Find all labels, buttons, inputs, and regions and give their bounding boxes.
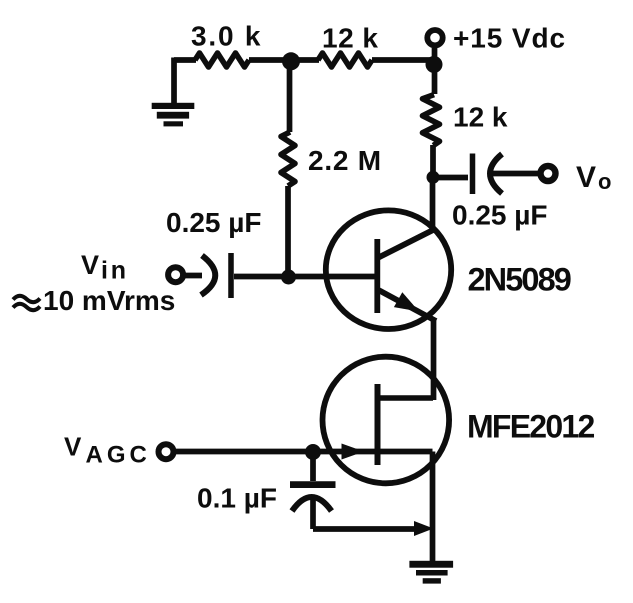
- label Vin: [81, 250, 129, 285]
- capacitor C2 0.25 uF straight plate: [470, 154, 476, 195]
- transistor Q1 base bar: [374, 239, 380, 313]
- svg-text:V: V: [576, 161, 596, 194]
- svg-text:AGC: AGC: [86, 442, 151, 469]
- svg-text:+15 Vdc: +15 Vdc: [453, 23, 566, 54]
- svg-text:2N5089: 2N5089: [468, 262, 571, 298]
- node junction A (R1/R2/2.2M): [282, 52, 300, 70]
- ground (bottom): [409, 561, 453, 584]
- wire terminal to node B: [432, 48, 438, 94]
- node junction B (supply node): [426, 56, 443, 73]
- transistor Q1 emitter lead: [378, 290, 437, 322]
- wire C3 to bottom rail: [313, 500, 424, 529]
- label Vo: [576, 161, 611, 194]
- wire node C down to collector: [430, 178, 436, 231]
- wire C1 to node D: [234, 274, 290, 280]
- label ~10 mVrms approx sign: [13, 296, 40, 310]
- label VAGC: [64, 432, 151, 469]
- wire source down to ground: [430, 452, 436, 563]
- terminal Vin: [168, 267, 183, 282]
- capacitor C3 0.1 uF straight plate: [290, 481, 336, 488]
- node junction D (base node): [281, 270, 296, 285]
- transistor Q2 MFE2012 circle: [323, 357, 450, 484]
- svg-text:12 k: 12 k: [453, 102, 508, 133]
- svg-text:2.2 M: 2.2 M: [308, 145, 382, 176]
- svg-text:0.25 µF: 0.25 µF: [452, 200, 548, 231]
- svg-text:12 k: 12 k: [322, 23, 379, 54]
- resistor R1 3.0 k: [195, 53, 249, 67]
- wire node E down to C3: [310, 452, 316, 481]
- wire C2 to Vo terminal: [490, 171, 540, 177]
- transistor Q1 collector lead: [378, 229, 437, 259]
- capacitor C1 0.25 uF curved plate: [201, 256, 215, 296]
- transistor Q1 2N5089 circle: [326, 210, 451, 329]
- wire R3 to node C: [430, 145, 436, 178]
- node junction C (collector node): [427, 171, 440, 184]
- ground (left): [152, 103, 195, 127]
- capacitor C2 curved plate: [490, 154, 502, 194]
- capacitor C3 curved plate: [292, 497, 332, 511]
- svg-text:V: V: [81, 250, 99, 280]
- resistor R2 12 k: [318, 53, 372, 67]
- wire top rail left segment: [174, 57, 196, 63]
- transistor Q2 drain lead: [378, 395, 434, 401]
- wire gate/source line: [175, 449, 433, 455]
- svg-text:V: V: [64, 432, 82, 462]
- transistor Q2 channel bar: [375, 384, 381, 465]
- wire top rail middle segment: [249, 57, 319, 63]
- resistor R4 2.2 M (vertical): [281, 132, 295, 186]
- svg-text:0.1 µF: 0.1 µF: [197, 483, 277, 514]
- wire emitter down to Q2 drain: [431, 319, 437, 400]
- wire R4 to node D: [285, 186, 291, 277]
- transistor Q2 gate arrow: [342, 444, 365, 460]
- capacitor C1 straight plate: [228, 253, 234, 298]
- node junction F (source/ground wire): [414, 521, 434, 536]
- svg-text:3.0 k: 3.0 k: [191, 21, 262, 52]
- resistor R3 12 k (vertical): [423, 95, 440, 146]
- wire top rail right segment: [372, 57, 434, 63]
- svg-text:0.25 µF: 0.25 µF: [166, 207, 262, 238]
- svg-text:MFE2012: MFE2012: [467, 409, 594, 445]
- svg-text:o: o: [598, 169, 611, 194]
- wire left drop to ground: [171, 58, 177, 105]
- wire node A down to R4: [287, 60, 293, 132]
- transistor Q1 emitter arrow: [394, 292, 419, 311]
- wire Vin terminal to C1: [184, 273, 202, 279]
- wire node C to C2: [433, 175, 468, 181]
- node junction E (AGC node): [305, 444, 321, 460]
- terminal Vo: [541, 166, 556, 181]
- terminal VAGC: [159, 444, 174, 459]
- terminal +15 Vdc: [427, 30, 442, 45]
- svg-text:10 mVrms: 10 mVrms: [43, 285, 175, 316]
- svg-text:in: in: [101, 257, 129, 285]
- wire base lead from node D: [288, 274, 376, 280]
